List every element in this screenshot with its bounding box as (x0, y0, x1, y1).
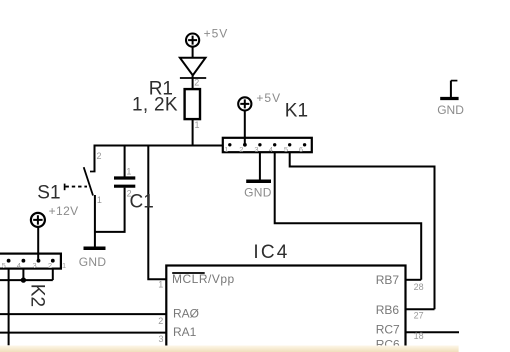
svg-text:K2: K2 (27, 284, 48, 307)
svg-text:2: 2 (194, 77, 199, 87)
svg-text:1: 1 (62, 261, 66, 270)
svg-text:S1: S1 (37, 183, 60, 204)
svg-text:2: 2 (127, 189, 132, 199)
svg-text:GND: GND (79, 255, 107, 269)
svg-text:2: 2 (97, 151, 102, 161)
svg-text:1: 1 (158, 279, 163, 289)
svg-text:1: 1 (224, 145, 228, 154)
svg-text:IC4: IC4 (253, 242, 289, 263)
svg-text:28: 28 (414, 282, 424, 292)
svg-text:1: 1 (126, 166, 131, 176)
svg-text:RB6: RB6 (376, 303, 400, 317)
svg-text:5: 5 (284, 145, 288, 154)
svg-text:2: 2 (239, 145, 243, 154)
svg-text:2: 2 (158, 316, 163, 326)
svg-text:C1: C1 (130, 192, 154, 213)
svg-text:1, 2K: 1, 2K (132, 95, 178, 116)
svg-text:RB7: RB7 (376, 273, 400, 287)
svg-text:+5V: +5V (204, 26, 229, 40)
svg-text:MCLR/Vpp: MCLR/Vpp (172, 272, 235, 286)
svg-text:RC7: RC7 (376, 323, 400, 337)
svg-text:3: 3 (254, 145, 258, 154)
svg-text:1: 1 (195, 120, 200, 130)
svg-text:3: 3 (33, 261, 37, 270)
svg-text:+12V: +12V (49, 204, 79, 218)
svg-text:3: 3 (158, 334, 163, 344)
svg-text:4: 4 (17, 261, 21, 270)
svg-text:GND: GND (244, 185, 272, 199)
svg-text:27: 27 (414, 310, 424, 320)
svg-text:GND: GND (437, 103, 464, 117)
svg-text:2: 2 (48, 261, 52, 270)
svg-text:18: 18 (414, 331, 424, 341)
svg-text:5: 5 (2, 261, 6, 270)
svg-text:RAØ: RAØ (173, 307, 199, 321)
svg-text:K1: K1 (285, 100, 308, 121)
svg-text:6: 6 (299, 145, 303, 154)
svg-text:4: 4 (269, 145, 273, 154)
svg-text:+5V: +5V (256, 91, 281, 105)
svg-text:1: 1 (97, 195, 102, 205)
svg-text:RA1: RA1 (173, 325, 197, 339)
